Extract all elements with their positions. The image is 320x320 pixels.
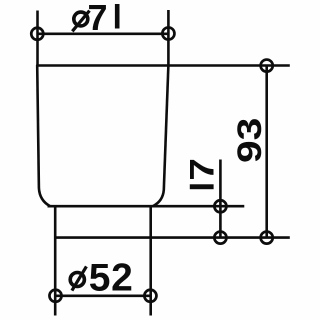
svg-text:52: 52 [89, 256, 134, 299]
label: diameter symbol of ø52 [70, 266, 86, 290]
wire: ø71 dimension line [37, 32, 168, 35]
label: 1 of ø71 (plain bar) [115, 4, 120, 29]
svg-text:7: 7 [88, 0, 108, 38]
node: circle right end of ø52 [144, 290, 156, 302]
node: circle top end of 93 [261, 60, 273, 72]
cup left wall [37, 65, 50, 206]
wire: right extension line above cup [167, 10, 170, 66]
wire: top rim line extended to right [36, 64, 290, 67]
svg-text:7: 7 [183, 158, 221, 181]
wire: mounting plate line [55, 236, 290, 239]
node: circle bottom end of 17 [214, 232, 226, 244]
wire: ø52 dimension line [56, 294, 151, 297]
wire: cup bottom line extended right [48, 205, 245, 208]
label: diameter symbol of ø71 [72, 11, 89, 32]
label: 1 of 17 dimension (plain bar, rotated horizontal) [190, 184, 214, 189]
wire: 93 dimension vertical line [265, 66, 268, 238]
node: circle left end of ø52 [49, 290, 61, 302]
node: circle top end of 17 [214, 200, 226, 212]
wire: left extension line above cup [36, 11, 39, 66]
wire: ø52 left extension line [54, 206, 57, 315]
node: circle right end of ø71 [162, 27, 174, 39]
node: circle bottom end of 93 [261, 232, 273, 244]
wire: ø52 right extension line [149, 207, 152, 316]
svg-text:93: 93 [230, 118, 268, 163]
wire: 17 dimension vertical line [219, 160, 222, 238]
node: circle left end of ø71 [31, 28, 43, 40]
cup right wall [153, 65, 168, 206]
